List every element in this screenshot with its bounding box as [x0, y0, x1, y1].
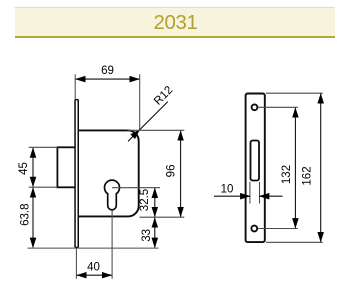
dim 162 : dimension line — [320, 94, 322, 242]
latch slot — [251, 141, 260, 181]
latch box — [57, 147, 75, 187]
dim 69 : extension line right — [139, 74, 141, 130]
dim 40 : left extension line (plate) — [75, 249, 77, 279]
dim 33 : dimension line — [154, 218, 156, 248]
svg-text:40: 40 — [87, 261, 100, 273]
strike plate (front view) — [246, 94, 265, 243]
svg-text:32.5: 32.5 — [139, 189, 151, 211]
lock body — [79, 130, 139, 216]
dim 63.8 : dimension line — [32, 188, 34, 248]
face plate (side view) — [75, 100, 78, 248]
svg-text:R12: R12 — [152, 84, 175, 107]
dim 10 : dimension line right part with arrow — [260, 195, 283, 197]
dim 96 : dimension line — [180, 131, 182, 217]
svg-text:63.8: 63.8 — [19, 204, 31, 226]
latch box bottom extension line — [29, 186, 58, 188]
body bottom extension line — [140, 216, 185, 218]
keyhole center line (vertical) — [111, 188, 113, 279]
header bar — [15, 7, 335, 38]
svg-text:33: 33 — [141, 229, 153, 242]
dim 40 : dimension line — [77, 274, 112, 276]
bottom screw hole — [251, 226, 257, 232]
dim 32.5 : dimension line — [154, 188, 156, 216]
keyhole (euro profile) — [105, 180, 120, 210]
dim 45 : dimension line — [32, 148, 34, 187]
svg-text:45: 45 — [18, 162, 30, 175]
top hole centre extension line — [258, 106, 298, 108]
plate top extension line — [266, 92, 323, 94]
R12 leader line with arrow — [140, 102, 168, 130]
keyhole centre extension line (horizontal) — [112, 187, 160, 189]
svg-text:162: 162 — [302, 166, 314, 185]
svg-text:69: 69 — [101, 65, 114, 77]
dim 96 : top extension line — [128, 129, 185, 131]
bottom hole centre extension line — [258, 228, 298, 230]
dim 10 : slot extension lines — [249, 182, 251, 204]
plate bottom extension line (right view) — [266, 241, 323, 243]
top screw hole — [252, 104, 258, 110]
dim 69 : extension line left — [74, 74, 76, 99]
dim 69 : dimension line with arrows — [76, 78, 140, 80]
svg-text:132: 132 — [281, 165, 293, 184]
latch box top extension line — [29, 146, 58, 148]
dim 10 : dimension line left part with arrow — [214, 195, 250, 197]
plate bottom extension line — [28, 247, 159, 249]
dim 132 : dimension line — [294, 108, 296, 228]
svg-text:10: 10 — [221, 183, 234, 195]
svg-text:96: 96 — [166, 165, 178, 178]
